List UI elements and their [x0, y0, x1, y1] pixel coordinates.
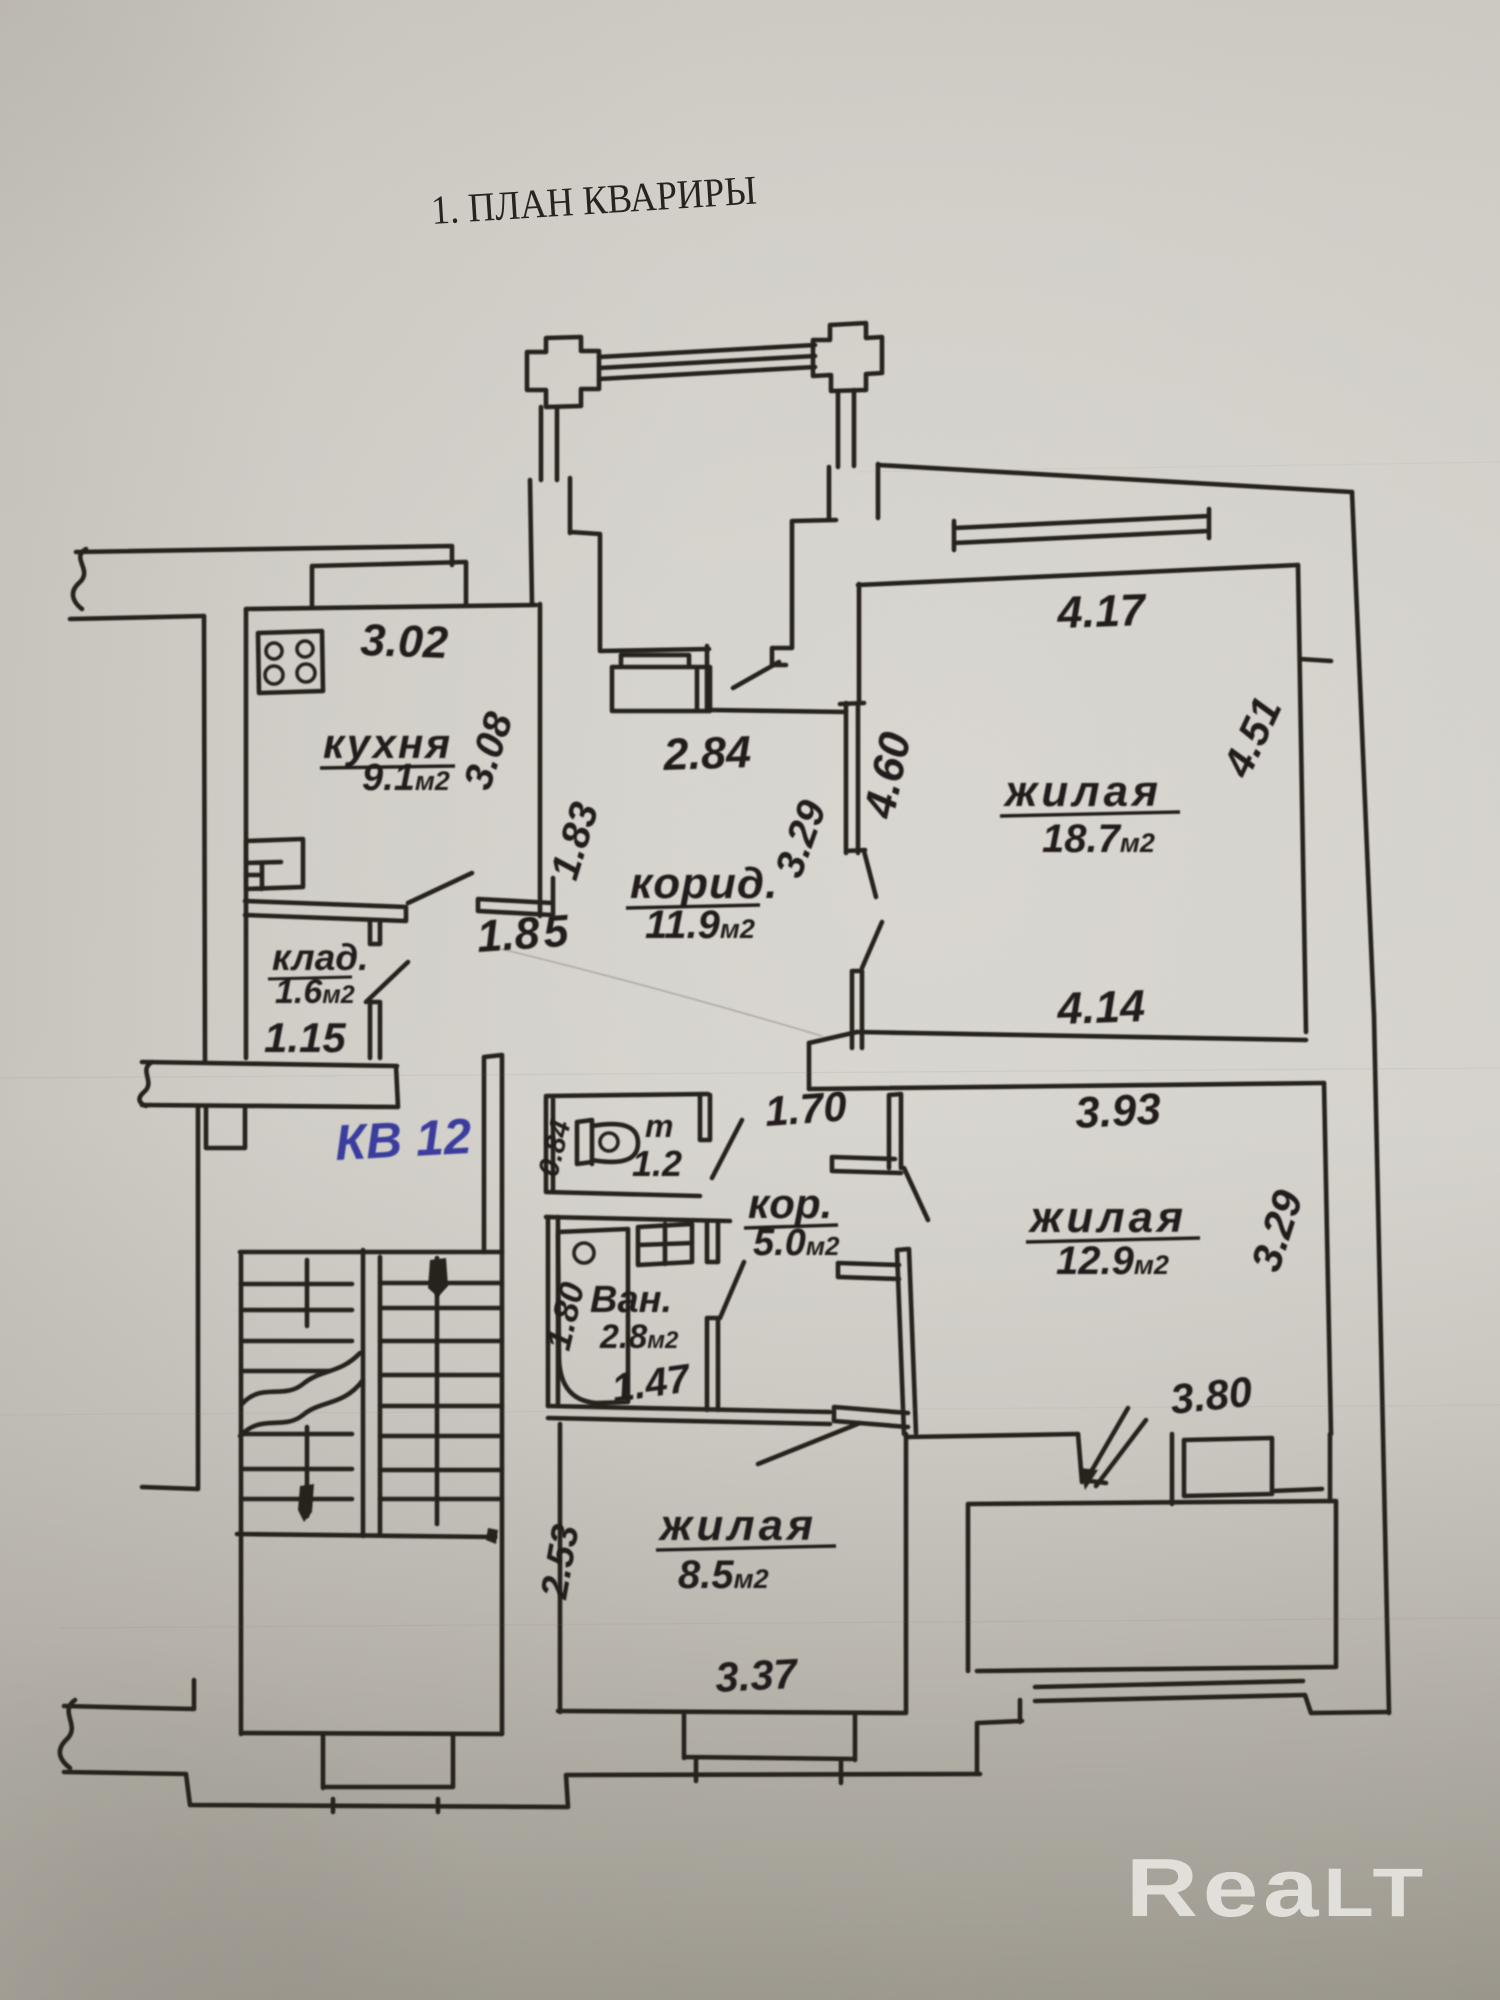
- hallway band left squiggle: [140, 1062, 152, 1106]
- wall break squiggle top-left: [73, 549, 86, 609]
- wall band upper to living bottom: [809, 1032, 857, 1043]
- stairs right treads: [380, 1283, 502, 1499]
- column balcony right cross: [813, 323, 882, 391]
- landing line end blob: [486, 1528, 498, 1544]
- wall room3 bottom: [558, 1711, 906, 1713]
- door leaf klad: [366, 962, 408, 1002]
- window living top: [954, 509, 1209, 550]
- wall left double outer line: [204, 616, 205, 1061]
- svg-text:3.37: 3.37: [714, 1650, 800, 1701]
- wall corridor top-left step: [570, 532, 709, 711]
- wall kitchen right: [538, 604, 543, 916]
- door leaf entrance: [712, 1120, 742, 1178]
- svg-text:ReaLT: ReaLT: [1126, 1841, 1428, 1934]
- wall living left upper: [857, 584, 862, 703]
- wall step left of balcony: [977, 1700, 1022, 1774]
- svg-text:m: m: [645, 1108, 673, 1144]
- wall room2 left double: [897, 1249, 916, 1434]
- wall bath right double upper: [707, 1221, 718, 1262]
- wall kitchen bottom double left: [245, 901, 406, 921]
- toilet fixture: [577, 1120, 592, 1164]
- svg-text:1.85: 1.85: [475, 905, 571, 962]
- wall stairwell right: [500, 1252, 505, 1734]
- door leaf bath: [720, 1262, 744, 1318]
- kitchen counter sink: [246, 839, 303, 889]
- stairs right rail: [435, 1258, 440, 1524]
- balcony right column legs: [838, 390, 854, 467]
- wall L-shape kor right upper: [832, 1094, 901, 1173]
- balcony bottom box: [968, 1501, 1336, 1671]
- stairs arrow down blob: [298, 1484, 314, 1522]
- door leaf corridor top: [733, 662, 779, 688]
- door leaf balcony with arrow: [1088, 1408, 1146, 1486]
- svg-text:3.02: 3.02: [360, 614, 449, 668]
- stairwell walls: [240, 1252, 502, 1734]
- door jamb toilet: [700, 1095, 710, 1140]
- wall left double below hallway: [206, 1107, 245, 1148]
- window kitchen bump: [312, 562, 466, 607]
- toilet bowl circle: [600, 1133, 618, 1151]
- wall living bottom: [857, 1032, 1306, 1040]
- wall corridor bottom toward living door: [710, 710, 846, 712]
- svg-text:жилая: жилая: [1028, 1193, 1187, 1242]
- wall living right: [1298, 565, 1306, 1032]
- wall block below right column: [570, 464, 878, 533]
- wall room2 right: [1324, 1083, 1331, 1434]
- door jamb room2 balcony: [1078, 1434, 1106, 1483]
- door leaf living room upper: [864, 851, 876, 897]
- handwriting labels layer: [264, 584, 1312, 1701]
- wall outer top-right: [878, 465, 1352, 492]
- svg-text:4.17: 4.17: [1056, 584, 1148, 638]
- door leaf kitchen: [408, 873, 472, 903]
- svg-text:жилая: жилая: [1003, 767, 1162, 816]
- closet corridor nested: [612, 655, 710, 711]
- radiator bar kor bottom: [834, 1407, 908, 1427]
- wall kitchen top: [246, 605, 536, 609]
- wall living top: [858, 565, 1298, 585]
- stairs left rail: [305, 1260, 310, 1516]
- wall outer left middle: [142, 1106, 198, 1489]
- svg-text:3.93: 3.93: [1074, 1085, 1162, 1138]
- bathtub: [558, 1229, 628, 1403]
- wall outer bottom: [64, 1772, 980, 1807]
- wall connector right: [1300, 659, 1331, 661]
- wall klad lower stub: [370, 1002, 380, 1058]
- sink bath cross: [638, 1224, 692, 1265]
- wall bath top: [546, 1217, 730, 1221]
- svg-text:1.70: 1.70: [763, 1082, 848, 1135]
- svg-text:3.80: 3.80: [1168, 1368, 1254, 1423]
- balcony door arrowhead: [1080, 1468, 1098, 1490]
- svg-text:2.84: 2.84: [662, 726, 752, 780]
- wall kitchen bottom double right: [478, 878, 553, 915]
- stairs landing line: [237, 1534, 495, 1537]
- wall band cap left: [807, 1043, 812, 1089]
- svg-text:корид.: корид.: [630, 859, 778, 908]
- toilet room walls: [546, 1094, 708, 1196]
- svg-text:1.2: 1.2: [632, 1143, 682, 1184]
- wall room3 left: [558, 1424, 563, 1712]
- svg-text:Ван.: Ван.: [590, 1279, 672, 1321]
- svg-text:кор.: кор.: [748, 1180, 832, 1227]
- svg-text:КВ 12: КВ 12: [334, 1108, 473, 1171]
- stairs middle divider: [361, 1250, 366, 1536]
- wall toilet-block left double: [484, 1055, 502, 1252]
- svg-text:жилая: жилая: [658, 1501, 817, 1550]
- wall room3 right: [904, 1434, 909, 1712]
- wall balcony left leg to kitchen corner: [530, 480, 532, 604]
- hallway band walls: [142, 1062, 398, 1107]
- svg-text:1.15: 1.15: [264, 1014, 346, 1061]
- radiator bar kor mid: [838, 1263, 899, 1279]
- wall room2 bottom: [908, 1434, 1078, 1437]
- wall outer top-left above kitchen: [76, 546, 452, 565]
- wall outer right: [1352, 492, 1389, 1713]
- wall left double inner line: [244, 609, 249, 1058]
- stove burners: [266, 643, 282, 659]
- stairs zigzag break: [240, 1353, 363, 1436]
- stairs arrow up blob: [428, 1258, 448, 1297]
- stairs left treads: [241, 1284, 352, 1499]
- balcony rail triple lines: [599, 345, 815, 379]
- stairs right flight left line: [378, 1257, 383, 1534]
- wall bath right double lower: [707, 1318, 718, 1410]
- svg-text:клад.: клад.: [272, 937, 368, 978]
- door leaf room2 entry: [904, 1168, 928, 1220]
- balcony left column legs: [541, 407, 557, 480]
- pencil crease faint: [497, 948, 822, 1036]
- svg-text:4.14: 4.14: [1056, 980, 1146, 1034]
- wall corridor-living upper with tick: [772, 520, 836, 665]
- wall inner top-left: [70, 616, 204, 619]
- window living left: [840, 703, 865, 853]
- wall bottom-left horizontal: [64, 1680, 194, 1709]
- wall room2 top: [809, 1083, 1324, 1089]
- window bay room2-balcony: [1172, 1434, 1330, 1504]
- wall stub junction below living door: [852, 971, 862, 1048]
- bathtub drain circle: [574, 1243, 594, 1263]
- stove kitchen: [258, 631, 323, 693]
- wall bath left double: [548, 1217, 558, 1406]
- window room3 bay: [684, 1714, 855, 1783]
- vestibule below stairs: [323, 1735, 453, 1812]
- door jamb klad upper stub: [370, 921, 380, 944]
- window balcony railing band: [1035, 1681, 1389, 1713]
- Realt watermark: [1126, 1841, 1428, 1934]
- door leaf living room lower: [862, 922, 882, 968]
- wall bath bottom double: [548, 1406, 830, 1424]
- wall break squiggle bottom-left: [60, 1700, 75, 1768]
- column balcony left cross: [527, 337, 599, 407]
- door leaf room3: [758, 1423, 860, 1464]
